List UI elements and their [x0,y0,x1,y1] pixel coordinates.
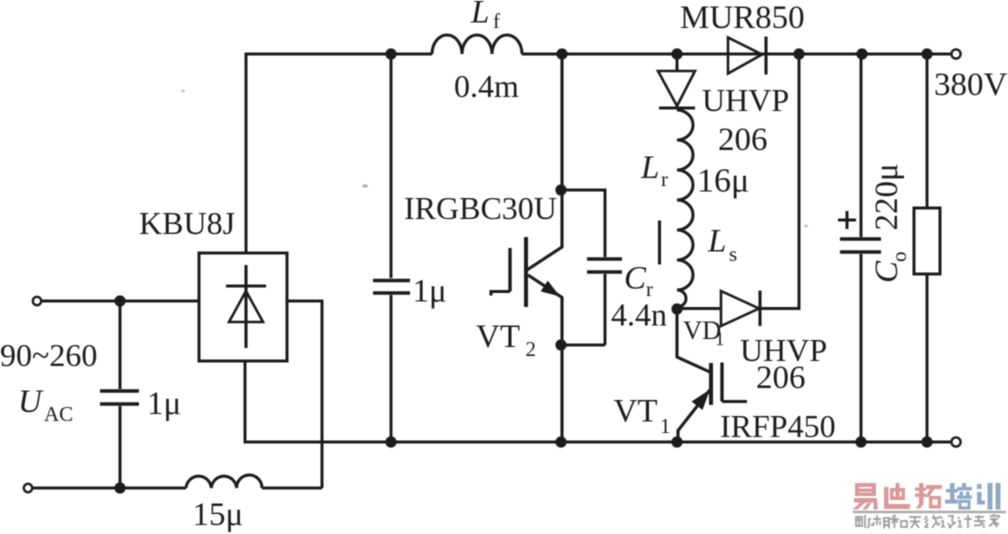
svg-text:s: s [729,242,737,266]
svg-text:IRFP450: IRFP450 [720,408,836,444]
inductor L2 15u [186,475,262,488]
terminal output plus [951,49,960,58]
transistor VT1 source lead [678,389,711,443]
svg-text:L: L [640,150,659,186]
watermark subtitle she [856,515,873,528]
watermark subtitle xian [925,515,941,528]
svg-text:f: f [493,9,500,33]
watermark subtitle pin [873,515,890,529]
bridge internal diode triangle [229,291,263,322]
wire top bus left segment [246,54,432,253]
svg-text:AC: AC [44,402,73,426]
diode VD UHVP206 top cathode bar [659,106,695,109]
bridge internal diode cathode bar [226,284,266,287]
node junction top-VT2 [556,48,567,59]
inductor Lr/Ls winding [677,110,693,307]
scan speck [362,184,368,187]
node junction bottom-VT1 source [671,436,682,447]
node junction top-Cf [385,48,396,59]
watermark subtitle tian [909,517,921,528]
capacitor Cr plates [587,257,622,260]
resistor RL body [914,208,940,274]
svg-text:220μ: 220μ [869,163,905,230]
svg-text:15μ: 15μ [193,497,244,533]
watermark logo glyph yi [853,483,878,510]
svg-text:U: U [18,384,44,420]
capacitor Cr wire bottom [604,274,607,345]
svg-text:L: L [707,224,726,260]
node junction bottom-Co [855,436,866,447]
transistor VT2 gate lead [491,292,510,296]
diode VD1 triangle [721,291,759,326]
transistor VT2 emitter arrow [541,281,560,297]
node junction bottom-load [921,436,932,447]
diode MUR850 triangle [728,38,762,74]
watermark logo glyph pei [945,483,972,510]
node junction top-MUR850 cathode [793,48,804,59]
wire AC lower [33,487,187,490]
capacitor C1 wire bottom [119,406,122,488]
label Co 220u rotated [869,163,911,283]
watermark logo glyph xun [977,483,1001,510]
diode VD1 anode wire [677,307,721,310]
svg-text:UHVP: UHVP [702,82,789,118]
watermark logo glyph tuo [915,483,942,509]
resistor RL wire bottom [926,274,929,442]
watermark subtitle he [890,515,907,528]
watermark logo glyph di [884,483,910,509]
wire AC lower to riser [262,487,322,490]
node junction Lr bottom / VD1 / VT1 [671,303,682,314]
diode MUR850 cathode bar [764,37,767,75]
svg-text:VT: VT [614,394,658,430]
capacitor C2 plates [373,279,410,282]
transistor VT2 channel bar [524,237,528,307]
inductor core bar [658,221,661,265]
capacitor Co plus sign [838,211,856,229]
node junction VT2 collector / Cr [555,184,566,195]
capacitor C1 wire top [119,301,122,389]
svg-text:VT: VT [476,319,520,355]
terminal AC input lower [24,484,32,492]
node junction top-load [921,48,932,59]
svg-text:1: 1 [715,329,725,350]
transistor VT1 source arrow [692,390,711,411]
node junction top-Lr [671,48,682,59]
svg-text:0.4m: 0.4m [454,68,519,104]
svg-text:MUR850: MUR850 [680,0,805,36]
watermark subtitle ji [958,515,972,528]
svg-text:o: o [887,252,911,263]
scan speck [181,90,185,93]
capacitor Co plates [840,237,881,240]
transistor VT2 collector wire [560,54,563,190]
wire top bus right segment [522,53,951,56]
wire AC riser to bridge right [287,301,322,488]
capacitor C1 plates [100,389,139,392]
svg-text:90~260: 90~260 [0,337,97,373]
svg-text:206: 206 [718,122,768,158]
node junction AC lower / C1 [114,482,125,493]
scan speck [804,225,808,228]
svg-text:2: 2 [526,337,537,361]
svg-text:KBU8J: KBU8J [139,205,235,241]
transistor VT2 gate bar [508,248,511,292]
wire collector node to Cr [561,190,605,257]
capacitor C2 wire top [390,54,393,278]
capacitor Co wire bottom [860,254,863,442]
transistor VT2 emitter lead [528,275,562,442]
node junction bottom-VT2 emitter [555,436,566,447]
svg-text:L: L [470,0,489,31]
watermark subtitle she2 [941,516,956,528]
svg-text:206: 206 [756,360,806,396]
svg-text:380V: 380V [934,67,1008,103]
transistor VT2 IGBT collector lead [527,190,562,270]
svg-text:C: C [624,261,647,297]
diode VD UHVP206 top anode wire [676,54,679,72]
wire bridge bottom to bottom bus [245,361,951,442]
svg-text:1μ: 1μ [413,274,447,310]
svg-text:4.4n: 4.4n [611,297,667,333]
svg-text:1μ: 1μ [147,386,181,422]
inductor Lf [432,35,522,54]
node junction AC upper / C1 [114,295,125,306]
capacitor Co wire top [860,54,863,237]
svg-text:16μ: 16μ [697,163,749,200]
watermark subtitle zhuan [974,515,985,528]
transistor VT1 gate bar [720,363,723,402]
wire Cr bottom to emitter [561,344,605,347]
terminal output minus [951,437,960,446]
svg-text:r: r [661,167,668,191]
bridge rectifier U1 KBU8J box [199,253,287,361]
svg-text:C: C [869,260,905,283]
node junction bottom-Cf [385,436,396,447]
diode VD UHVP206 top triangle [658,71,695,106]
svg-text:1: 1 [660,414,671,438]
bridge internal diode wire [244,265,247,348]
watermark subtitle jia [989,514,999,527]
watermark underline [853,511,1006,513]
resistor RL wire top [926,54,929,208]
node junction VT2 emitter / Cr [555,339,566,350]
terminal AC input upper [33,297,41,305]
transistor VT1 drain lead [677,309,711,373]
wire AC upper to bridge [42,300,200,303]
transistor VT1 gate lead [722,400,747,403]
transistor VT1 channel bar [709,363,713,405]
diode VD1 cathode bar [758,291,761,327]
svg-text:IRGBC30U: IRGBC30U [404,190,557,226]
capacitor C2 wire bottom [390,295,393,442]
node junction top-Co [856,48,867,59]
wire VD1 cathode to top bus [760,54,799,309]
